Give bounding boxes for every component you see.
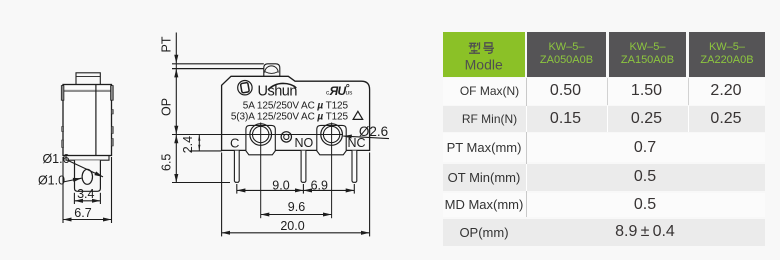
- pin NO: [301, 151, 306, 183]
- header cell KW-5-ZA150A0B: [609, 32, 686, 77]
- side view body: [63, 85, 112, 156]
- NC screw outer circle: [321, 124, 343, 146]
- plunger dome: [265, 66, 279, 73]
- svg-text:3.4: 3.4: [77, 187, 94, 201]
- row OF Max: [443, 78, 765, 105]
- dimension 2.4 line: [198, 135, 200, 151]
- side view parting line: [95, 85, 97, 156]
- side view bottom step: [66, 156, 109, 161]
- svg-text:Ø1.6: Ø1.6: [42, 152, 69, 166]
- side view left latch marks: [62, 127, 64, 132]
- svg-text:C: C: [230, 136, 239, 151]
- svg-text:5(3)A 125/250V AC µ T125: 5(3)A 125/250V AC µ T125: [231, 112, 349, 123]
- svg-text:OP: OP: [160, 98, 174, 116]
- hanzi HAO: [483, 42, 494, 53]
- svg-text:Ø1.0: Ø1.0: [38, 174, 65, 188]
- dimension 20.0 line: [222, 232, 370, 234]
- side view plunger button: [76, 73, 100, 85]
- header cell KW-5-ZA050A0B: [527, 32, 606, 77]
- VDE triangle mark: [353, 111, 363, 119]
- C screw inner circle: [253, 126, 269, 142]
- side view top band: [63, 90, 112, 92]
- dimension 6.5 line: [175, 135, 177, 183]
- side view left top tab: [61, 86, 64, 101]
- pin NC: [352, 151, 357, 183]
- lever operating position line: [172, 68, 264, 70]
- dimension 6.7 extension lines: [62, 157, 64, 223]
- svg-text:Ø2.6: Ø2.6: [359, 124, 388, 139]
- dimension PT vertical line upper: [175, 33, 177, 64]
- 6.5 bottom reference line: [172, 182, 230, 184]
- svg-text:6.9: 6.9: [311, 178, 328, 192]
- svg-text:Modle: Modle: [465, 56, 503, 72]
- header cell KW-5-ZA220A0B: [689, 32, 765, 77]
- svg-text:6.7: 6.7: [74, 206, 91, 220]
- side view right latch marks: [111, 110, 113, 115]
- plunger outline: [264, 64, 280, 77]
- leader line dia 1.6: [68, 161, 103, 177]
- dimension line segment through lever: [175, 63, 177, 69]
- hanzi XING: [469, 42, 480, 53]
- dimension 6.9 line: [303, 189, 354, 191]
- svg-text:Ushun: Ushun: [258, 84, 298, 100]
- plunger smile: [265, 72, 278, 74]
- leader line dia 1.0: [63, 178, 82, 182]
- NC terminal boss: [317, 125, 346, 154]
- row MD Max: [443, 193, 765, 217]
- front body outline: [222, 76, 370, 150]
- screw center vertical NC: [331, 123, 333, 219]
- row OP: [443, 219, 765, 245]
- svg-text:PT: PT: [160, 36, 174, 52]
- dimension 9.0 line: [237, 189, 304, 191]
- body edge extension lines: [221, 153, 223, 237]
- pin C: [234, 151, 239, 183]
- dimension OP line: [175, 69, 177, 135]
- pin extension lines: [236, 184, 238, 194]
- C terminal boss: [246, 125, 275, 154]
- header cell model (green): [443, 32, 525, 77]
- svg-text:2.4: 2.4: [181, 136, 195, 153]
- svg-text:6.5: 6.5: [160, 154, 174, 171]
- row RF Min: [443, 106, 765, 132]
- row PT Max: [443, 133, 765, 162]
- lever free position line: [172, 63, 264, 65]
- svg-text:20.0: 20.0: [280, 219, 304, 233]
- NC screw inner circle: [323, 126, 339, 142]
- screw center vertical C: [260, 123, 262, 219]
- Ushun logo swoosh: [268, 83, 296, 89]
- svg-text:5A 125/250V AC µ T125: 5A 125/250V AC µ T125: [243, 100, 349, 111]
- side view terminal tab: [75, 160, 101, 191]
- dimension 9.6 line: [261, 214, 332, 216]
- C screw outer circle: [250, 124, 272, 146]
- dimension 6.7 line: [63, 219, 112, 221]
- leader line dia 2.6: [343, 136, 389, 139]
- dimension 3.4 line: [74, 200, 100, 202]
- logo circle icon: [238, 81, 252, 95]
- svg-text:ЯU: ЯU: [329, 84, 347, 98]
- row OT Min: [443, 164, 765, 192]
- NO indicator outer circle: [281, 132, 291, 142]
- table column dividers: [526, 78, 527, 217]
- side view right top tab: [111, 86, 114, 101]
- screw cross horizontal line: [172, 134, 343, 136]
- 2.4 bottom reference line: [190, 150, 222, 152]
- NO indicator inner circle: [284, 134, 289, 139]
- svg-text:us: us: [346, 90, 354, 97]
- svg-text:9.6: 9.6: [288, 200, 305, 214]
- dimension 3.4 extension lines: [73, 193, 75, 204]
- svg-text:9.0: 9.0: [272, 178, 289, 192]
- svg-text:NO: NO: [295, 136, 314, 150]
- terminal hole ellipse: [82, 169, 92, 184]
